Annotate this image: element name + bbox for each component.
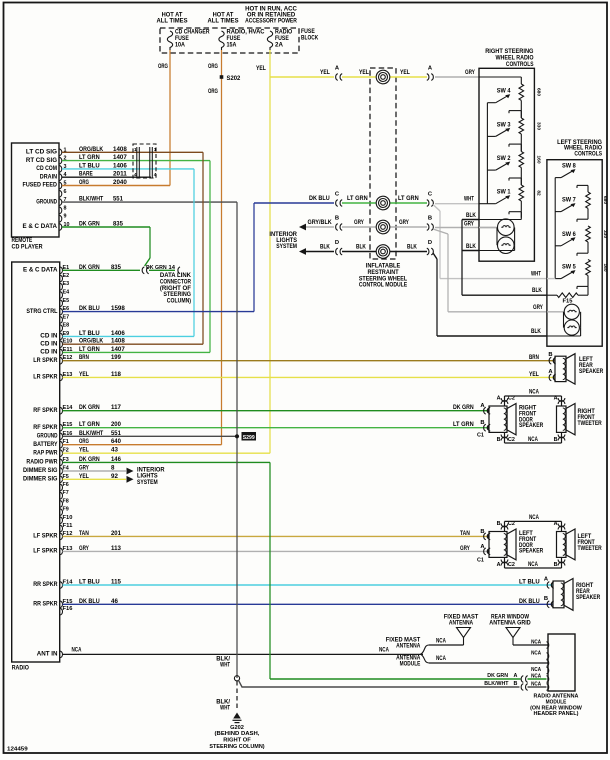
svg-text:B: B — [497, 521, 501, 527]
svg-text:GRY: GRY — [465, 69, 476, 76]
svg-text:DK GRN: DK GRN — [79, 264, 100, 271]
svg-text:BLK: BLK — [532, 287, 542, 294]
svg-text:DK GRN: DK GRN — [79, 221, 100, 228]
svg-text:SW 4: SW 4 — [497, 88, 511, 95]
svg-text:F6: F6 — [63, 482, 69, 488]
svg-text:GROUND: GROUND — [36, 198, 57, 205]
svg-text:YEL: YEL — [79, 447, 89, 454]
svg-text:330: 330 — [602, 230, 608, 238]
svg-text:115: 115 — [111, 579, 121, 586]
svg-text:BLK: BLK — [407, 244, 417, 251]
svg-text:BLK: BLK — [320, 244, 330, 251]
svg-text:GRY: GRY — [460, 545, 471, 552]
svg-text:S299: S299 — [243, 435, 256, 441]
svg-text:BRN: BRN — [79, 354, 89, 361]
svg-text:92: 92 — [111, 473, 118, 480]
svg-text:BRN: BRN — [529, 354, 539, 361]
svg-text:ORG/BLK: ORG/BLK — [79, 338, 104, 345]
svg-text:RADIO: RADIO — [12, 665, 29, 672]
svg-text:F11: F11 — [63, 523, 73, 529]
svg-text:D: D — [428, 240, 432, 246]
svg-text:ORG: ORG — [208, 63, 218, 70]
svg-text:WHT: WHT — [531, 271, 541, 278]
svg-text:GRY: GRY — [464, 221, 475, 228]
svg-text:LT BLU: LT BLU — [79, 579, 100, 586]
svg-text:ORG: ORG — [79, 438, 89, 445]
svg-text:160: 160 — [536, 155, 542, 163]
svg-text:1408: 1408 — [111, 338, 125, 345]
svg-text:330: 330 — [536, 122, 542, 130]
svg-text:10A: 10A — [175, 42, 185, 49]
svg-text:COLUMN): COLUMN) — [167, 298, 191, 305]
svg-text:RF SPKR: RF SPKR — [33, 424, 58, 431]
svg-text:RAP PWR: RAP PWR — [33, 449, 58, 456]
svg-text:4: 4 — [134, 172, 137, 178]
svg-text:C1: C1 — [477, 558, 484, 564]
svg-text:B: B — [514, 681, 518, 687]
svg-text:GRY: GRY — [79, 545, 90, 552]
svg-text:E7: E7 — [63, 314, 70, 320]
svg-text:201: 201 — [111, 530, 121, 537]
svg-text:B: B — [544, 596, 548, 602]
svg-text:BATTERY: BATTERY — [33, 441, 58, 448]
svg-text:DK GRN: DK GRN — [453, 404, 474, 411]
svg-text:ALL TIMES: ALL TIMES — [156, 18, 187, 25]
svg-text:GRY: GRY — [399, 219, 410, 226]
svg-text:LR SPKR: LR SPKR — [33, 357, 58, 364]
svg-text:GRY: GRY — [533, 304, 544, 311]
svg-text:SW 1: SW 1 — [497, 189, 511, 196]
svg-text:FUSED FEED: FUSED FEED — [23, 182, 58, 189]
svg-text:8: 8 — [64, 205, 67, 211]
svg-text:DIMMER SIG: DIMMER SIG — [23, 476, 58, 483]
svg-text:YEL: YEL — [79, 371, 89, 378]
svg-text:E3: E3 — [63, 281, 70, 287]
svg-text:F16: F16 — [63, 606, 73, 612]
svg-text:835: 835 — [111, 264, 121, 271]
svg-text:RR SPKR: RR SPKR — [33, 601, 58, 608]
svg-text:DK GRN: DK GRN — [79, 456, 100, 463]
svg-text:GRY: GRY — [354, 219, 365, 226]
svg-text:SW 3: SW 3 — [497, 121, 511, 128]
svg-text:9: 9 — [64, 214, 67, 220]
svg-text:DK GRN: DK GRN — [146, 265, 167, 271]
svg-text:ORG: ORG — [79, 179, 89, 186]
svg-text:8: 8 — [111, 465, 115, 472]
svg-text:GROUND: GROUND — [37, 433, 58, 440]
svg-text:LT GRN: LT GRN — [347, 195, 368, 202]
svg-text:E8: E8 — [63, 323, 70, 329]
svg-text:BLK/WHT: BLK/WHT — [484, 681, 509, 687]
svg-text:DK BLU: DK BLU — [519, 598, 540, 605]
svg-text:E5: E5 — [63, 298, 70, 304]
svg-text:CD COM: CD COM — [36, 165, 57, 172]
svg-text:ANTENNA: ANTENNA — [449, 620, 474, 627]
svg-text:ORG: ORG — [158, 63, 168, 70]
svg-text:NCA: NCA — [528, 561, 538, 568]
svg-text:A: A — [497, 396, 501, 402]
svg-text:LT BLU: LT BLU — [79, 330, 100, 337]
svg-text:TAN: TAN — [79, 530, 89, 537]
svg-text:SYSTEM: SYSTEM — [137, 479, 158, 486]
svg-text:CONTROLS: CONTROLS — [574, 151, 602, 158]
svg-text:1: 1 — [134, 147, 137, 153]
svg-text:STEERING COLUMN): STEERING COLUMN) — [209, 744, 264, 750]
svg-text:BLK: BLK — [531, 328, 541, 335]
svg-text:F8: F8 — [63, 498, 69, 504]
svg-text:LT CD SIG: LT CD SIG — [26, 149, 57, 156]
svg-text:E4: E4 — [63, 290, 70, 296]
svg-text:DK BLU: DK BLU — [79, 305, 100, 312]
svg-text:STRG CTRL: STRG CTRL — [26, 308, 57, 315]
svg-text:B: B — [554, 562, 558, 568]
svg-text:LT GRN: LT GRN — [79, 421, 100, 428]
svg-text:RADIO PWR: RADIO PWR — [26, 459, 58, 466]
svg-text:1: 1 — [154, 147, 157, 153]
svg-text:NCA: NCA — [528, 436, 538, 443]
svg-text:LF SPKR: LF SPKR — [33, 548, 58, 555]
svg-text:4: 4 — [154, 172, 157, 178]
svg-text:BLK: BLK — [466, 212, 476, 219]
svg-text:LF SPKR: LF SPKR — [33, 533, 58, 540]
svg-text:1406: 1406 — [111, 330, 125, 337]
svg-text:NCA: NCA — [72, 647, 82, 654]
svg-text:1408: 1408 — [113, 146, 127, 153]
svg-text:NCA: NCA — [529, 514, 539, 521]
svg-text:C2: C2 — [508, 562, 515, 568]
svg-text:CD IN: CD IN — [40, 340, 58, 347]
svg-text:B: B — [335, 216, 339, 222]
svg-text:LT BLU: LT BLU — [79, 162, 100, 169]
svg-text:6: 6 — [64, 189, 67, 195]
svg-text:B: B — [480, 529, 484, 535]
svg-text:SW 6: SW 6 — [562, 231, 576, 238]
svg-text:SW 7: SW 7 — [562, 197, 576, 204]
svg-text:ORG: ORG — [208, 88, 218, 95]
svg-text:YEL: YEL — [256, 65, 266, 72]
svg-text:F9: F9 — [63, 507, 69, 513]
svg-text:BLK: BLK — [356, 244, 366, 251]
svg-text:680: 680 — [536, 88, 542, 96]
svg-text:TAN: TAN — [460, 530, 470, 537]
svg-text:DK GRN: DK GRN — [79, 404, 100, 411]
svg-text:ANTENNA GRID: ANTENNA GRID — [489, 620, 531, 627]
svg-text:124459: 124459 — [7, 747, 29, 753]
svg-text:MODULE: MODULE — [400, 661, 421, 668]
svg-text:E & C DATA: E & C DATA — [23, 267, 58, 274]
svg-text:46: 46 — [111, 598, 118, 605]
svg-text:DK GRN: DK GRN — [487, 673, 508, 679]
svg-text:BLK/WHT: BLK/WHT — [79, 196, 103, 203]
svg-text:2A: 2A — [275, 42, 283, 49]
svg-text:SPEAKER: SPEAKER — [576, 594, 601, 601]
svg-text:HEADER PANEL): HEADER PANEL) — [534, 711, 579, 717]
svg-text:2040: 2040 — [113, 179, 127, 186]
svg-text:BLK/WHT: BLK/WHT — [79, 430, 103, 437]
svg-text:NCA: NCA — [531, 640, 541, 646]
svg-text:NCA: NCA — [379, 647, 389, 654]
svg-text:YEL: YEL — [400, 69, 410, 76]
svg-text:B: B — [497, 437, 501, 443]
svg-text:CD PLAYER: CD PLAYER — [12, 244, 44, 251]
svg-text:551: 551 — [111, 430, 121, 437]
svg-text:680: 680 — [602, 196, 608, 204]
svg-text:TWEETER: TWEETER — [578, 545, 603, 552]
svg-text:SW 8: SW 8 — [562, 163, 576, 170]
svg-text:200: 200 — [111, 421, 121, 428]
svg-text:E2: E2 — [63, 273, 70, 279]
svg-text:14: 14 — [169, 265, 176, 271]
svg-text:2011: 2011 — [113, 171, 127, 178]
svg-text:D: D — [335, 240, 339, 246]
svg-text:LT GRN: LT GRN — [79, 346, 100, 353]
svg-text:43: 43 — [111, 447, 118, 454]
svg-text:118: 118 — [111, 371, 121, 378]
svg-text:E & C DATA: E & C DATA — [23, 223, 58, 230]
svg-text:NCA: NCA — [436, 655, 446, 662]
svg-text:1598: 1598 — [111, 305, 125, 312]
svg-text:LR SPKR: LR SPKR — [33, 374, 58, 381]
svg-text:B: B — [428, 216, 432, 222]
svg-text:551: 551 — [113, 196, 123, 203]
svg-text:B: B — [554, 437, 558, 443]
svg-text:ALL TIMES: ALL TIMES — [207, 18, 238, 25]
svg-text:DRAIN: DRAIN — [40, 173, 58, 180]
svg-text:1406: 1406 — [113, 162, 127, 169]
svg-text:F7: F7 — [63, 490, 69, 496]
svg-text:DK BLU: DK BLU — [309, 195, 330, 202]
svg-text:SPEAKER: SPEAKER — [579, 368, 604, 375]
svg-text:117: 117 — [111, 404, 121, 411]
svg-text:A: A — [554, 521, 558, 527]
svg-text:YEL: YEL — [359, 69, 369, 76]
svg-text:NCA: NCA — [529, 389, 539, 396]
svg-text:RIGHT OF: RIGHT OF — [223, 738, 251, 744]
svg-text:F10: F10 — [63, 515, 73, 521]
svg-text:S202: S202 — [227, 75, 241, 82]
svg-text:DK BLU: DK BLU — [79, 598, 100, 605]
svg-text:LT GRN: LT GRN — [453, 421, 474, 428]
svg-text:A: A — [554, 396, 558, 402]
svg-text:82: 82 — [536, 190, 542, 196]
svg-text:835: 835 — [113, 221, 123, 228]
svg-text:NCA: NCA — [436, 638, 446, 645]
svg-text:SW 5: SW 5 — [562, 264, 576, 271]
svg-text:YEL: YEL — [529, 371, 539, 378]
svg-text:LT BLU: LT BLU — [519, 579, 540, 586]
svg-text:C2: C2 — [508, 437, 515, 443]
svg-text:1407: 1407 — [111, 346, 125, 353]
svg-text:RR SPKR: RR SPKR — [33, 581, 58, 588]
svg-text:SPEAKER: SPEAKER — [519, 422, 544, 429]
svg-text:SPEAKER: SPEAKER — [519, 548, 544, 555]
svg-text:LT GRN: LT GRN — [79, 154, 100, 161]
svg-text:NCA: NCA — [531, 667, 541, 673]
svg-text:146: 146 — [111, 456, 121, 463]
svg-text:DIMMER SIG: DIMMER SIG — [23, 467, 58, 474]
svg-text:RT CD SIG: RT CD SIG — [26, 157, 57, 164]
svg-text:BARE: BARE — [79, 171, 93, 178]
svg-text:160: 160 — [602, 263, 608, 271]
svg-text:ORG/BLK: ORG/BLK — [79, 146, 104, 153]
svg-text:A: A — [497, 562, 501, 568]
svg-text:WHT: WHT — [220, 705, 230, 712]
svg-text:CD IN: CD IN — [40, 333, 58, 340]
svg-text:WHT: WHT — [220, 662, 230, 669]
svg-text:B: B — [548, 352, 552, 358]
svg-text:SW 2: SW 2 — [497, 155, 511, 162]
svg-text:15A: 15A — [227, 42, 237, 49]
svg-text:SYSTEM: SYSTEM — [276, 243, 297, 250]
svg-text:B: B — [480, 420, 484, 426]
svg-text:ANTENNA: ANTENNA — [396, 643, 421, 650]
svg-text:BLOCK: BLOCK — [301, 35, 319, 42]
svg-text:BLK: BLK — [466, 243, 476, 250]
svg-text:RF SPKR: RF SPKR — [33, 407, 58, 414]
svg-text:(BEHIND DASH,: (BEHIND DASH, — [215, 731, 260, 737]
svg-text:ANT IN: ANT IN — [37, 651, 58, 658]
svg-text:GRY: GRY — [79, 465, 90, 472]
svg-text:NCA: NCA — [531, 651, 541, 657]
svg-text:1407: 1407 — [113, 154, 127, 161]
svg-text:C1: C1 — [477, 433, 484, 439]
svg-text:A: A — [514, 673, 518, 679]
svg-text:CD IN: CD IN — [40, 349, 58, 356]
svg-text:ACCESSORY POWER: ACCESSORY POWER — [245, 18, 297, 25]
svg-text:YEL: YEL — [79, 473, 89, 480]
svg-text:199: 199 — [111, 354, 121, 361]
svg-text:GRY/BLK: GRY/BLK — [308, 219, 333, 226]
svg-text:WHT: WHT — [464, 196, 474, 203]
svg-text:YEL: YEL — [320, 69, 330, 76]
svg-text:LT GRN: LT GRN — [398, 195, 419, 202]
svg-text:CONTROLS: CONTROLS — [506, 61, 534, 68]
svg-text:CONTROL MODULE: CONTROL MODULE — [359, 282, 407, 289]
svg-text:TWEETER: TWEETER — [578, 420, 603, 427]
svg-text:F15: F15 — [563, 299, 573, 305]
svg-text:113: 113 — [111, 545, 121, 552]
svg-text:640: 640 — [111, 438, 121, 445]
